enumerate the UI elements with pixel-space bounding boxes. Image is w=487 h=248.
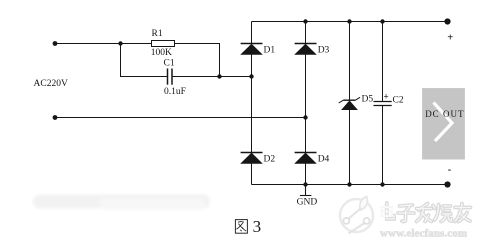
- svg-text:D1: D1: [264, 46, 276, 56]
- zener diode D5: [339, 97, 360, 110]
- node: junction at R1/C1 right: [217, 74, 221, 78]
- wire: R1 right to corner: [174, 43, 220, 45]
- node: bottom rail D4: [303, 182, 307, 186]
- DC OUT chevron: [434, 103, 453, 142]
- svg-text:AC220V: AC220V: [34, 79, 68, 89]
- node: top rail C2: [380, 19, 384, 23]
- svg-text:+: +: [384, 92, 389, 102]
- wire: C1 right plate to node: [172, 76, 220, 78]
- wire: bridge middle column: [305, 22, 307, 185]
- diode D2: [240, 153, 263, 164]
- wire: top AC line: [55, 22, 448, 185]
- svg-text:0.1uF: 0.1uF: [164, 87, 186, 97]
- diode D4: [294, 153, 317, 164]
- ground: [300, 185, 312, 196]
- wire: top rail: [252, 21, 448, 23]
- logo circle (elecfans watermark): [340, 197, 373, 234]
- node: top rail D5: [347, 19, 351, 23]
- node: bottom rail C2: [380, 182, 384, 186]
- svg-text:C2: C2: [393, 96, 404, 106]
- node: AC bottom terminal: [53, 115, 58, 120]
- wire: D5 column: [349, 22, 351, 185]
- node: bottom rail D5: [347, 182, 351, 186]
- svg-text:100K: 100K: [151, 48, 172, 58]
- wire: C2 column lower: [382, 106, 384, 185]
- wire: node to bridge left column: [220, 76, 252, 78]
- svg-text:D4: D4: [318, 155, 330, 165]
- svg-text:GND: GND: [297, 197, 318, 207]
- node: bridge left mid junction: [249, 74, 253, 78]
- node: top rail D3: [303, 19, 307, 23]
- wire: bridge left column: [251, 22, 253, 185]
- node: - output terminal: [444, 181, 450, 187]
- svg-text:R1: R1: [152, 29, 163, 39]
- wire: corner down to node: [219, 44, 221, 78]
- resistor R1: [152, 41, 175, 47]
- svg-text:D5: D5: [362, 95, 374, 105]
- diode D1: [240, 44, 263, 55]
- wire: bottom AC line: [55, 117, 306, 119]
- node: + output terminal: [444, 18, 450, 24]
- wire: to C1 left plate: [121, 76, 168, 78]
- caption 图 3: [235, 220, 247, 234]
- wire: bottom rail: [252, 184, 448, 186]
- node: junction at R1/C1 left: [118, 41, 122, 45]
- DC OUT overlay box: [422, 88, 465, 159]
- svg-text:D3: D3: [318, 46, 330, 56]
- svg-text:+: +: [447, 33, 453, 44]
- svg-text:DC OUT: DC OUT: [425, 109, 464, 119]
- svg-text:www.elecfans.com: www.elecfans.com: [380, 227, 467, 239]
- wire: C1 branch down: [120, 44, 122, 78]
- svg-text:C1: C1: [164, 59, 175, 69]
- node: bridge middle mid junction: [303, 115, 307, 119]
- svg-text:3: 3: [253, 217, 262, 236]
- capacitor C2: [374, 102, 392, 106]
- svg-text:-: -: [448, 164, 452, 175]
- wire: C2 column upper: [382, 22, 384, 102]
- node: AC top terminal: [53, 41, 58, 46]
- capacitor C1: [168, 69, 173, 85]
- diode D3: [294, 44, 317, 55]
- svg-text:D2: D2: [264, 155, 276, 165]
